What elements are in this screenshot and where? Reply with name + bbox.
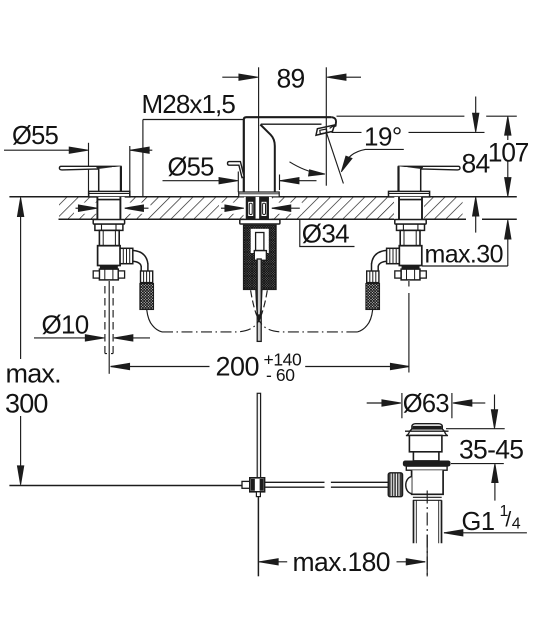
svg-text:300: 300	[5, 388, 48, 418]
spout body white mask	[244, 117, 336, 191]
svg-text:max.30: max.30	[425, 241, 503, 269]
waste seal flange (black)	[403, 461, 450, 466]
right hose elbow	[372, 250, 387, 264]
dim 35-45 top reference line	[446, 428, 505, 430]
faucet top reference line (107)	[337, 115, 517, 117]
dim 200 line + arrows	[111, 363, 410, 369]
right handle stem	[399, 166, 421, 192]
svg-text:Ø10: Ø10	[42, 309, 89, 339]
left tube white slot	[248, 202, 253, 216]
left thread band	[100, 266, 117, 270]
left shank through counter	[97, 197, 125, 219]
middle hole Ø34 arrow (right-pointing)	[221, 205, 244, 212]
right lever blade	[399, 166, 461, 170]
block collar	[254, 251, 266, 261]
horizontal lever bar segment 1	[265, 482, 325, 487]
svg-text:89: 89	[277, 64, 305, 94]
middle flexible-connection block (cross-hatched)	[244, 225, 277, 289]
dim max.180 line + arrows	[259, 559, 425, 565]
pop-up rod (middle segment)	[257, 393, 260, 478]
spout base plate top line	[239, 193, 280, 195]
dim 84 bottom arrow (up)	[473, 197, 479, 233]
waste flange lower ring	[406, 466, 447, 470]
dim 35-45 bottom reference line	[451, 463, 504, 465]
Ø55 left extension line (left)	[88, 143, 90, 197]
19° left arc arrow	[290, 162, 326, 176]
left hose elbow	[133, 250, 148, 264]
19° right leader + arc arrow	[341, 149, 404, 172]
dim Ø63 extension lines	[402, 393, 452, 418]
left valve neck	[99, 230, 119, 245]
right hose ferrule	[367, 271, 379, 283]
bottom reference long line	[9, 485, 243, 487]
svg-text:35-45: 35-45	[459, 434, 523, 464]
dim 84 top arrow (down)	[473, 97, 479, 133]
dim Ø63 line + arrows	[367, 400, 486, 406]
left handle stem	[99, 166, 121, 192]
svg-text:max.180: max.180	[293, 547, 390, 577]
svg-text:max.: max.	[6, 358, 61, 388]
dim Ø55 middle: line + arrows	[163, 178, 317, 184]
right valve centerline extension	[408, 281, 410, 373]
rod clamp	[250, 478, 265, 492]
svg-text:Ø34: Ø34	[302, 219, 349, 249]
svg-text:200: 200	[216, 351, 260, 381]
left hex nut	[95, 224, 123, 230]
countertop slab hatching	[59, 197, 463, 218]
spout tip right edge	[330, 117, 336, 128]
svg-text:Ø55: Ø55	[12, 122, 59, 150]
spout control lever	[228, 162, 245, 178]
left lever blade	[59, 166, 121, 170]
middle shank threaded tube (right, black)	[260, 197, 269, 219]
right valve neck	[400, 230, 420, 245]
right tube inner pin	[263, 203, 266, 214]
right escutcheon top line	[389, 193, 430, 195]
dim 107 top arrow (up)	[505, 116, 511, 140]
dim Ø55 left: line + arrows	[4, 147, 152, 153]
right hex nut	[397, 224, 425, 230]
middle shank white hole	[244, 197, 271, 219]
left hose ferrule	[141, 271, 153, 283]
waste dome cap dark band	[413, 426, 441, 429]
right hose tube	[372, 264, 379, 272]
spout tip extension / 19° vertical reference	[325, 67, 327, 185]
waste center line	[426, 491, 428, 577]
svg-text:107: 107	[488, 138, 529, 168]
dim Ø55 middle: extension lines	[238, 172, 279, 193]
spout inner fillet and front face	[260, 125, 275, 192]
right lever blade wedge	[408, 167, 423, 169]
right hose braid	[366, 284, 380, 310]
right valve body	[399, 246, 422, 266]
white backing for hole diameter arrows	[74, 203, 302, 214]
spout left edge and top edge	[244, 117, 331, 191]
pop-up rod (upper segment)	[257, 259, 261, 341]
left hole Ø34 arrow (left-pointing)	[125, 205, 149, 212]
left pipe center rod	[108, 281, 110, 374]
spout tip notch edge	[330, 125, 335, 128]
right shank through counter	[394, 197, 422, 219]
aerator inner face	[320, 129, 327, 134]
dim max.300 bottom arrow (down)	[17, 416, 23, 485]
dim max.180 extension line	[426, 535, 428, 576]
svg-text:/: /	[505, 509, 511, 532]
countertop top surface line	[9, 196, 516, 198]
svg-text:G1: G1	[462, 508, 495, 536]
spout center extension line	[258, 67, 260, 192]
waste body	[412, 470, 444, 494]
waste tailpipe inner thread lines	[416, 500, 438, 543]
clamp lower tab	[256, 492, 260, 497]
left hose braid	[140, 284, 154, 310]
pop-up rod (lower segment)	[257, 497, 259, 577]
block inner cartridge	[256, 233, 264, 251]
right hose end curve	[357, 310, 372, 332]
svg-text:Ø63: Ø63	[403, 390, 450, 418]
label Ø34 leader	[300, 219, 355, 246]
flexible tails taper outer curves (dashed)	[251, 290, 257, 314]
right thread band	[402, 266, 419, 270]
knurled knob	[388, 473, 402, 497]
right handle stem left edge (thick)	[397, 166, 399, 192]
svg-text:Ø55: Ø55	[168, 154, 215, 182]
right backnut flange	[395, 220, 426, 225]
block white slot	[251, 229, 269, 253]
countertop bottom line	[59, 218, 517, 220]
horizontal lever bar segment 2	[331, 482, 388, 487]
right escutcheon plate	[389, 191, 430, 197]
left tube inner pin	[249, 203, 252, 214]
left escutcheon top line	[89, 193, 130, 195]
left washer tabs	[93, 271, 99, 278]
dim 107 bottom arrow (down)	[505, 162, 511, 197]
hose center line (dash-dot, right)	[259, 320, 358, 332]
svg-text:19°: 19°	[364, 122, 402, 152]
dim 35-45 top arrow (down)	[491, 395, 497, 429]
left lower nut	[99, 269, 118, 280]
right tube white slot	[262, 202, 267, 216]
spout base plate	[239, 192, 280, 197]
left handle stem right edge (thick)	[120, 166, 122, 192]
left side port nut	[120, 248, 133, 263]
left escutcheon plate	[89, 191, 130, 197]
rod sheath taper (solid)	[256, 290, 258, 315]
waste tailpipe	[414, 500, 442, 543]
left hose tube	[141, 264, 148, 272]
svg-text:M28x1,5: M28x1,5	[142, 89, 236, 119]
spout underside line	[261, 123, 322, 125]
dim 89 line + arrows	[222, 74, 361, 80]
waste body side port	[406, 477, 412, 494]
middle hole Ø34 arrow (left-pointing)	[272, 205, 300, 212]
right washer tabs	[395, 271, 401, 278]
waste flare top line	[405, 430, 449, 432]
spout outlet (aerator)	[316, 125, 335, 135]
middle backnut flange	[240, 219, 280, 224]
left hose end curve	[147, 310, 162, 332]
dim max.30 bottom arrow (up) + leader	[422, 220, 511, 266]
sheath tip	[256, 314, 262, 322]
left lever blade wedge	[97, 167, 112, 169]
right side port nut	[387, 248, 400, 263]
svg-text:4: 4	[512, 516, 521, 533]
dim Ø10 leader + arrows	[34, 335, 150, 341]
M28x1,5 leader line	[143, 120, 244, 197]
waste lower barrel	[413, 452, 439, 461]
right lower nut	[401, 269, 420, 280]
left Ø10 pipe (dashed)	[105, 286, 113, 354]
Ø55 left extension line (right)	[129, 146, 131, 196]
waste upper barrel	[409, 435, 442, 451]
spout tip reference line (84 / 19°)	[332, 131, 485, 133]
waste dome flare	[406, 429, 448, 436]
19° slanted line	[327, 133, 344, 183]
left valve body	[98, 246, 121, 266]
left backnut flange	[93, 220, 124, 225]
svg-text:- 60: - 60	[266, 365, 295, 385]
label G1 1/4 leader + arrow	[444, 530, 527, 536]
rod clamp left fitting	[242, 481, 250, 488]
dim 35-45 bottom arrow (up)	[492, 464, 498, 501]
hose center line (dash-dot, left)	[162, 320, 259, 332]
waste thread rings	[413, 497, 442, 500]
left hole Ø34 arrow (right-pointing)	[76, 205, 98, 212]
dim max.300 top arrow (up)	[17, 198, 23, 359]
svg-text:84: 84	[462, 148, 490, 178]
middle shank threaded tube (left, black)	[246, 197, 255, 219]
waste dome cap	[412, 424, 442, 429]
